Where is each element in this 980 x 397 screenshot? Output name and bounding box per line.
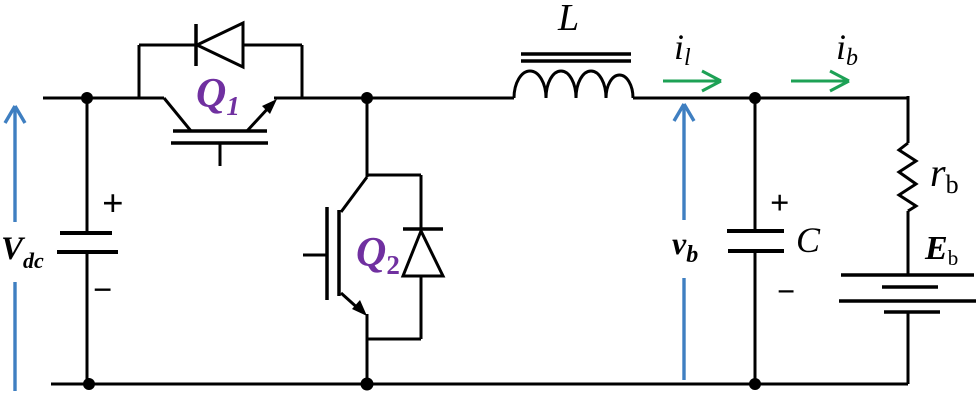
wire Vdc capacitor top lead bbox=[86, 98, 89, 233]
wire bottom rail bbox=[51, 383, 908, 386]
arrow Vdc (blue, up) bbox=[5, 106, 25, 391]
transistor Q1 collector slant bbox=[164, 98, 191, 131]
wire battery bottom lead bbox=[907, 312, 910, 384]
wire Vdc capacitor bottom lead bbox=[86, 252, 89, 384]
node F junction dot (bottom of capacitor C) bbox=[749, 378, 761, 390]
wire top rail middle segment (Q1 emitter to node B) bbox=[274, 97, 368, 100]
wire right branch top lead bbox=[907, 96, 910, 143]
node E junction dot (bottom of Q2) bbox=[361, 378, 374, 391]
diode D1 cathode bar bbox=[194, 24, 198, 66]
diode D1 cathode drop wire bbox=[138, 45, 141, 98]
diode D2 triangle bbox=[403, 231, 443, 276]
capacitor C top plate bbox=[727, 229, 784, 233]
battery Eb plate 3 long bbox=[839, 299, 976, 303]
transistor Q2 emitter line bbox=[341, 293, 361, 311]
diode D1 anode wire (right vertical drop) bbox=[301, 45, 304, 98]
wire Q2 collector lead bbox=[366, 96, 369, 177]
transistor Q2 body bar bbox=[337, 210, 341, 296]
wire resistor to battery lead bbox=[907, 211, 910, 275]
transistor Q1 body bar bbox=[173, 129, 267, 133]
transistor Q2 gate lead bbox=[303, 254, 327, 257]
capacitor C bottom plate bbox=[728, 249, 784, 253]
diode D2 top wire bbox=[367, 174, 421, 177]
arrow il (green, right) bbox=[663, 71, 721, 91]
diode D2 cathode bar bbox=[403, 227, 443, 231]
node C junction dot (top of capacitor C) bbox=[749, 92, 761, 104]
svg-text:+: + bbox=[770, 185, 789, 222]
battery Eb plate 2 short bbox=[882, 285, 938, 289]
svg-text:L: L bbox=[557, 0, 579, 39]
wire capacitor C top lead bbox=[754, 98, 757, 231]
battery Eb plate 1 long bbox=[841, 273, 974, 277]
inductor L core line lower bbox=[521, 59, 631, 63]
diode D1 triangle bbox=[197, 23, 243, 67]
wire Q2 emitter lead bbox=[366, 314, 369, 384]
inductor L core line upper bbox=[521, 52, 631, 56]
diode D2 anode lead bbox=[420, 276, 423, 339]
diode D2 cathode lead bbox=[420, 175, 423, 229]
arrow ib (green, right) bbox=[791, 71, 849, 91]
inductor L coil bbox=[514, 71, 633, 98]
wire inductor to right corner bbox=[633, 97, 909, 100]
wire top rail left segment bbox=[43, 97, 164, 100]
diode D2 bottom wire bbox=[367, 338, 421, 341]
svg-text:−: − bbox=[93, 272, 112, 309]
capacitor Cdc top plate bbox=[60, 231, 112, 235]
transistor Q1 gate bar bbox=[171, 141, 268, 145]
resistor rb zigzag bbox=[899, 143, 916, 211]
node B junction dot bbox=[361, 92, 373, 104]
node D junction dot (bottom left) bbox=[83, 378, 95, 390]
transistor Q2 emitter arrowhead bbox=[352, 300, 367, 316]
battery Eb plate 4 short bbox=[884, 310, 940, 314]
transistor Q1 gate lead bbox=[219, 143, 222, 166]
transistor Q1 emitter arrowhead bbox=[262, 99, 277, 114]
node A junction dot (top of Vdc capacitor) bbox=[81, 92, 93, 104]
transistor Q1 emitter line bbox=[247, 105, 271, 131]
capacitor Cdc bottom plate bbox=[57, 250, 118, 254]
svg-text:+: + bbox=[102, 183, 124, 225]
svg-text:C: C bbox=[796, 220, 821, 260]
wire top rail node B to inductor bbox=[366, 97, 514, 100]
transistor Q2 collector slant bbox=[341, 177, 367, 212]
diode D1 top wire right bbox=[243, 44, 302, 47]
svg-text:−: − bbox=[777, 273, 795, 309]
diode D1 top wire left bbox=[139, 44, 196, 47]
wire capacitor C bottom lead bbox=[754, 251, 757, 384]
arrow vb (blue, up) bbox=[674, 104, 694, 380]
transistor Q2 gate bar bbox=[325, 207, 329, 300]
